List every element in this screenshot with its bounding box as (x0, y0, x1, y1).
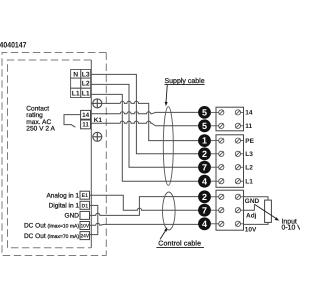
svg-text:E1: E1 (82, 193, 88, 199)
svg-text:250 V 2 A: 250 V 2 A (26, 126, 55, 133)
wire L3 (91, 74, 199, 153)
svg-text:11: 11 (82, 122, 89, 129)
svg-text:24V: 24V (81, 234, 90, 240)
core 5 (14) (198, 106, 211, 119)
svg-text:11: 11 (245, 123, 252, 130)
svg-text:10V: 10V (245, 227, 257, 234)
contact rating note (26, 106, 55, 133)
lower terminal boxes E1 D1 GND 10V 24V (80, 191, 90, 239)
svg-text:7: 7 (202, 205, 207, 215)
svg-text:L2: L2 (82, 81, 90, 88)
supply cable sheath (163, 107, 173, 186)
input annotation (282, 219, 303, 232)
earth screw terminal (top) (91, 99, 102, 108)
core 2 (GND) (198, 190, 211, 203)
svg-text:L2: L2 (245, 165, 253, 172)
strip labels (245, 110, 260, 234)
svg-text:2: 2 (202, 192, 207, 202)
svg-text:1: 1 (202, 136, 207, 146)
svg-text:D1: D1 (81, 203, 88, 209)
wire GND (90, 197, 199, 216)
terminal labels N L3 L2 L1 (72, 71, 90, 97)
svg-text:L3: L3 (245, 151, 253, 158)
svg-text:L1: L1 (72, 90, 80, 97)
svg-text:N: N (73, 71, 78, 78)
svg-text:Control cable: Control cable (158, 240, 201, 248)
control cable sheath (163, 192, 176, 230)
terminal block N L3 / L2 / L1 L1 (71, 70, 91, 98)
svg-text:Supply cable: Supply cable (165, 77, 205, 85)
wire PE (screw to terminal 1) (102, 101, 199, 140)
wire 10V to potentiometer bottom (244, 222, 269, 224)
screw terminals in strips (211, 110, 244, 227)
svg-text:Adj: Adj (246, 212, 257, 219)
svg-text:L1: L1 (245, 179, 253, 186)
wire E1 to Adj (90, 195, 199, 210)
wire L1 (91, 94, 199, 181)
outer dashed enclosure (terminal box boundary) (2, 53, 106, 256)
wiper arrow (255, 204, 277, 219)
boundary chain line (right edge of enclosure) (105, 53, 107, 256)
svg-text:4: 4 (202, 176, 207, 186)
core 7 (Adj) (198, 204, 211, 217)
svg-text:7: 7 (202, 162, 207, 172)
jumper D1 to 24V (90, 205, 98, 234)
inner dashed enclosure (8, 60, 92, 248)
core 4 (L1) (198, 175, 211, 188)
terminal labels E1 D1 10V 24V (81, 193, 90, 239)
svg-text:5: 5 (202, 121, 207, 131)
svg-text:L1: L1 (82, 90, 90, 97)
core 5 (11) (198, 119, 211, 132)
svg-text:DC Out (Imax=70 mA): DC Out (Imax=70 mA) (24, 233, 79, 240)
svg-text:4040147: 4040147 (0, 40, 27, 49)
wire 10V (90, 223, 199, 225)
svg-text:5: 5 (202, 108, 207, 118)
svg-text:GND: GND (65, 213, 80, 220)
core 2 (L3) (198, 147, 211, 160)
svg-text:L3: L3 (82, 71, 90, 78)
contact blade (71, 124, 75, 127)
svg-text:DC Out (Imax=10 mA): DC Out (Imax=10 mA) (24, 223, 79, 230)
svg-text:10V: 10V (81, 224, 90, 230)
device edge line (90, 60, 92, 248)
core 1 (PE) (198, 134, 211, 147)
svg-text:PE: PE (245, 138, 254, 145)
svg-text:GND: GND (245, 198, 260, 205)
terminal strip: mains PE L3 L2 L1 (216, 135, 244, 188)
relay contact K1 wire from 14 (64, 115, 81, 125)
wire GND to potentiometer top (244, 197, 269, 200)
terminal box 11 (81, 120, 91, 129)
input labels (24, 192, 79, 239)
wire numbers (cores) (198, 106, 211, 230)
wire 14 (91, 112, 199, 114)
terminal labels 14 11 (82, 112, 90, 129)
svg-text:Analog in 1: Analog in 1 (46, 192, 79, 199)
svg-text:Digital in 1: Digital in 1 (49, 203, 80, 210)
core numbers text (202, 108, 207, 229)
svg-text:14: 14 (245, 110, 253, 117)
terminal strip: control GND Adj 10V (216, 190, 244, 230)
svg-text:0-10 V: 0-10 V (282, 225, 301, 232)
terminal box 14 (81, 110, 91, 119)
core 7 (L2) (198, 161, 211, 174)
wire 11 (91, 121, 199, 126)
svg-text:4: 4 (202, 219, 207, 229)
svg-text:14: 14 (82, 112, 90, 119)
earth screw terminal (lower, unused) (93, 132, 102, 141)
potentiometer body (265, 200, 272, 222)
core 4 (10V) (198, 217, 211, 230)
wire Adj riser (244, 204, 255, 210)
wire L2 (91, 84, 199, 167)
svg-text:2: 2 (202, 149, 207, 159)
terminal strip: relay contacts 14/11 (216, 107, 244, 131)
